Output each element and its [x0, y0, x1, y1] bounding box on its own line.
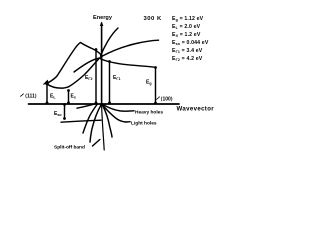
svg-text:EΓ2 = 4.2 eV: EΓ2 = 4.2 eV: [172, 56, 203, 62]
conduction band lower-left upper branch: [74, 58, 102, 72]
svg-text:Eso = 0.044 eV: Eso = 0.044 eV: [172, 40, 209, 46]
svg-text:Ex: Ex: [71, 94, 76, 100]
L-valley curve: [47, 59, 99, 88]
svg-text:Wavevector: Wavevector: [177, 106, 215, 113]
direction label <111>: [21, 94, 37, 100]
energy values list: [172, 16, 209, 62]
conduction band upper-left L to peak to Gamma: [47, 43, 102, 84]
svg-text:Heavy holes: Heavy holes: [135, 109, 163, 115]
svg-text:EL: EL: [50, 94, 56, 100]
svg-text:EL = 2.0 eV: EL = 2.0 eV: [172, 24, 201, 30]
conduction band branch A rising right of Gamma: [101, 28, 119, 56]
svg-text:Eso: Eso: [54, 111, 62, 117]
direction label <100>: [157, 97, 173, 103]
svg-text:⟨111⟩: ⟨111⟩: [25, 94, 37, 100]
svg-text:EΓ1: EΓ1: [113, 75, 121, 81]
arrow E_X left: [67, 89, 76, 104]
svg-text:Energy: Energy: [93, 15, 113, 21]
arrow E_g at X: [146, 66, 157, 104]
light hole band: [83, 105, 126, 134]
svg-text:EX = 1.2 eV: EX = 1.2 eV: [172, 32, 201, 38]
label Heavy holes: [126, 109, 163, 115]
svg-text:Split-off band: Split-off band: [54, 145, 85, 151]
label Split-off band: [54, 140, 100, 151]
heavy hole band: [77, 103, 126, 111]
svg-text:EΓ1 = 3.4 eV: EΓ1 = 3.4 eV: [172, 48, 203, 54]
label Light holes: [126, 120, 157, 126]
svg-text:300 K: 300 K: [144, 16, 162, 22]
arrow E_L: [43, 80, 57, 105]
wavevector axis: [29, 103, 180, 105]
conduction band branch B upper right: [103, 40, 159, 56]
split-off band: [61, 105, 112, 142]
svg-text:⟨100⟩: ⟨100⟩: [161, 97, 173, 103]
arrow E_so below axis: [54, 103, 66, 120]
svg-text:Eg: Eg: [146, 80, 152, 86]
energy axis: [100, 22, 104, 151]
arrow E_Gamma1 center-right: [108, 60, 120, 104]
arrow E_Gamma2 tall center-left: [85, 48, 97, 104]
svg-text:Light holes: Light holes: [131, 120, 157, 126]
conduction band branch C lower right to X: [100, 59, 156, 68]
svg-text:Eg = 1.12 eV: Eg = 1.12 eV: [172, 16, 204, 22]
svg-text:EΓ2: EΓ2: [85, 75, 93, 81]
